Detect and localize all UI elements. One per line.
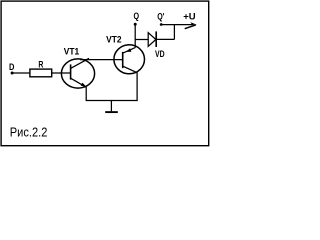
wire VT2 collector down — [136, 73, 138, 101]
wire Q to diode anode — [135, 39, 148, 41]
svg-text:D: D — [9, 62, 15, 72]
+U arrow head — [185, 22, 197, 29]
node Q' dot — [160, 23, 163, 26]
transistor VT1 — [61, 58, 94, 88]
border frame — [1, 1, 209, 146]
svg-text:VD: VD — [155, 49, 165, 59]
wire diode cathode — [156, 38, 174, 40]
wire R to VT1 base — [52, 72, 71, 74]
wire VT1 emitter down — [85, 87, 87, 101]
svg-text:Q: Q — [134, 11, 140, 21]
svg-text:R: R — [38, 59, 43, 69]
ground — [105, 101, 118, 113]
diode VD — [148, 31, 156, 47]
resistor R — [30, 69, 52, 77]
svg-text:Q': Q' — [157, 12, 164, 22]
wire D to R — [12, 72, 30, 74]
node D terminal dot — [11, 72, 14, 75]
wire up from cathode to Q' line — [173, 24, 175, 39]
svg-text:VT1: VT1 — [64, 46, 79, 56]
svg-text:VT2: VT2 — [106, 34, 121, 44]
transistor VT2 — [114, 45, 145, 74]
svg-text:+U: +U — [183, 11, 195, 22]
wire VT1 collector to VT2 base — [80, 59, 122, 61]
bottom emitter wire — [86, 100, 138, 102]
wire VT2 emitter up to Q — [134, 24, 136, 48]
svg-text:Рис.2.2: Рис.2.2 — [10, 124, 48, 139]
wire Q' to +U arrow — [161, 24, 193, 26]
node Q dot — [134, 23, 137, 26]
